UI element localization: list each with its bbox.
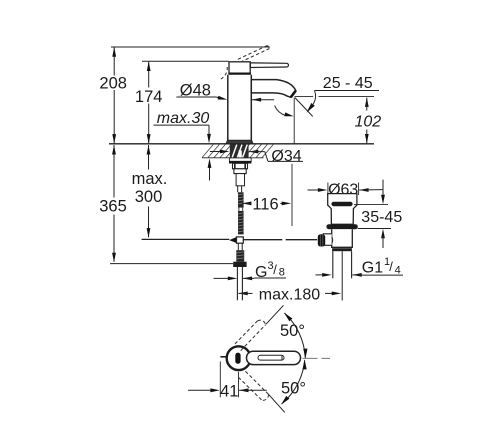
svg-text:116: 116 <box>252 196 278 214</box>
svg-text:300: 300 <box>135 188 163 206</box>
spout tip vertical reference line <box>293 98 295 144</box>
dimension 365 line <box>113 145 115 198</box>
lower 50 deg extension line <box>269 394 285 412</box>
svg-text:8: 8 <box>279 267 285 279</box>
svg-text:174: 174 <box>135 88 163 106</box>
svg-text:G1: G1 <box>362 259 383 276</box>
faucet lever (solid, horizontal) <box>250 63 288 68</box>
drain cap seal band <box>331 202 352 207</box>
pop-up rod segment below clamp <box>237 243 239 250</box>
upper 50 deg arc <box>285 313 306 358</box>
dimension 208 line <box>113 47 115 75</box>
faucet tailpiece tube <box>236 267 238 300</box>
dimension Ø34 leader and arrows <box>210 151 221 153</box>
washer bold bottom line <box>229 161 251 163</box>
svg-text:365: 365 <box>99 198 127 216</box>
lever swing dashed arc <box>221 67 228 79</box>
spout outlet face (thick) <box>291 91 296 98</box>
svg-text:102: 102 <box>355 113 382 130</box>
top view lever dashed (raised +50) <box>235 320 266 350</box>
svg-text:41: 41 <box>220 382 238 400</box>
pop-up rod knurled knob <box>318 234 325 246</box>
top view lever inner slot <box>258 355 284 360</box>
lower 50 deg arc <box>282 360 305 404</box>
horizontal pop-up linkage rod <box>142 238 230 240</box>
drain side outlet <box>323 234 332 246</box>
svg-text:208: 208 <box>99 75 127 93</box>
deck top line <box>109 143 374 145</box>
svg-text:G: G <box>255 264 267 281</box>
svg-text:max.180: max.180 <box>259 287 320 304</box>
svg-text:max.: max. <box>132 170 168 188</box>
top view lever (horizontal) <box>247 351 301 364</box>
extension line top of faucet (208 ref) <box>111 46 270 48</box>
drain plug cap <box>328 194 357 225</box>
dimension 116 right reference line <box>291 164 293 226</box>
nut lower step <box>234 169 246 174</box>
dimension 35-45 lower reference line <box>358 228 391 230</box>
pop-up rod clamp <box>229 237 237 243</box>
dimension max.300 line <box>148 145 150 170</box>
dimension 25 - 45 underline <box>315 90 380 92</box>
top view lever slot <box>235 353 240 364</box>
drain centerline <box>341 251 343 300</box>
faucet body <box>226 75 252 144</box>
svg-text:Ø34: Ø34 <box>271 148 301 165</box>
svg-text:4: 4 <box>395 265 401 277</box>
stream swivel arc arrow <box>275 106 286 116</box>
drain flange <box>326 224 357 229</box>
faucet body base ring <box>226 140 252 143</box>
dimension G3/8 arrows and underline <box>214 277 232 279</box>
dimension max.180 line <box>238 292 248 296</box>
extension line hose end (365 ref) <box>110 263 233 265</box>
svg-text:25 - 45: 25 - 45 <box>323 75 373 92</box>
drain tailpiece walls <box>332 251 334 278</box>
faucet cartridge housing <box>229 62 250 73</box>
deck section hatching <box>202 144 214 157</box>
faucet lever (dashed raised position) <box>238 46 270 63</box>
svg-text:/: / <box>389 259 393 274</box>
dimension max.30 leader and arrows <box>154 124 210 126</box>
svg-text:/: / <box>273 262 277 277</box>
dimension 174 line <box>148 62 150 88</box>
spout <box>251 80 295 98</box>
dimension 116 line <box>242 202 252 206</box>
svg-text:50°: 50° <box>280 322 305 340</box>
svg-text:max.30: max.30 <box>157 110 210 127</box>
upper 50 deg extension line <box>266 305 284 324</box>
dimension 102 line <box>365 97 369 107</box>
dimension 35-45 line <box>382 180 384 198</box>
threaded mounting shank <box>230 144 249 157</box>
dimension 35-45 upper reference line <box>354 204 388 206</box>
dimension Ø63 extension lines <box>327 183 329 196</box>
spout outlet level reference line <box>295 96 314 98</box>
top view faucet base circle <box>227 346 251 370</box>
G3/8 connection nut <box>233 262 246 267</box>
top view pop-up rod stub <box>220 356 226 358</box>
drain body <box>332 229 353 247</box>
dimension Ø48 leader and arrows <box>176 96 216 98</box>
supply hose tube <box>236 174 244 186</box>
svg-text:35-45: 35-45 <box>361 209 402 226</box>
dimension 25 - 45 leader arrow <box>313 91 316 105</box>
housing bold base line <box>228 72 251 75</box>
dimension G1 1/4 arrows and underline <box>316 274 327 276</box>
extension line top of body (174 ref) <box>142 60 229 62</box>
dimension 41 lines and arrows <box>219 362 221 398</box>
dimension Ø63 arrows <box>308 189 322 191</box>
hose lower threaded end <box>236 250 244 262</box>
deck bottom line <box>202 157 264 159</box>
water stream direction line <box>295 98 313 117</box>
top view lever dashed (lowered -50) <box>238 371 268 400</box>
pop-up rod upper threaded section <box>238 192 244 207</box>
mounting washer <box>229 158 251 161</box>
mounting nut <box>233 163 248 169</box>
top view lever axis centerline <box>303 357 318 359</box>
svg-text:50°: 50° <box>281 380 306 398</box>
drain body bottom flange <box>332 248 352 251</box>
